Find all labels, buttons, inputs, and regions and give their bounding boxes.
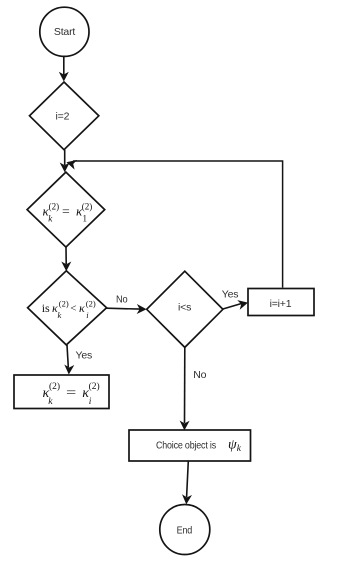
svg-text:k: k <box>58 310 62 320</box>
svg-text:End: End <box>177 525 193 537</box>
node Start (terminal circle) <box>40 7 89 56</box>
svg-text:ψ: ψ <box>228 437 237 452</box>
svg-text:=: = <box>66 385 76 400</box>
svg-text:is: is <box>42 301 50 315</box>
process i=i+1 <box>248 289 314 316</box>
decision D2 kappa_k = kappa_1 <box>27 172 105 247</box>
svg-text:(2): (2) <box>49 202 60 212</box>
svg-text:(2): (2) <box>59 299 69 309</box>
wire Start to D1 <box>59 57 69 82</box>
svg-text:i<s: i<s <box>178 302 191 314</box>
decision D3 is kappa_k < kappa_i <box>28 271 107 345</box>
wire D3 to D4 (No branch) <box>107 294 147 315</box>
svg-text:Yes: Yes <box>76 350 93 362</box>
wire loopback from i=i+1 to junction <box>66 160 282 288</box>
svg-text:Yes: Yes <box>222 288 239 300</box>
wire D3 to assignment box (Yes branch) <box>64 345 92 375</box>
svg-text:No: No <box>116 294 128 306</box>
svg-text:i: i <box>89 397 92 407</box>
svg-text:i=2: i=2 <box>56 110 70 122</box>
svg-text:κ: κ <box>79 301 85 315</box>
wire D2 to D3 <box>61 247 71 271</box>
svg-text:(2): (2) <box>89 381 100 392</box>
svg-text:<: < <box>70 303 76 315</box>
svg-text:Choice object is: Choice object is <box>156 439 216 451</box>
svg-text:(2): (2) <box>86 299 96 309</box>
wire D4 to choice box (No branch) <box>180 347 207 430</box>
decision D1 i=2 <box>30 82 99 150</box>
svg-text:(2): (2) <box>49 381 60 392</box>
svg-text:i=i+1: i=i+1 <box>270 298 292 310</box>
svg-text:=: = <box>62 204 70 218</box>
node End (terminal circle) <box>160 505 210 555</box>
process Choice object is psi_k <box>129 430 251 461</box>
svg-text:No: No <box>193 369 206 381</box>
svg-text:(2): (2) <box>82 202 93 212</box>
wire D4 to i=i+1 (Yes branch) <box>222 288 248 309</box>
decision D4 i&lt;s <box>147 271 223 347</box>
svg-text:1: 1 <box>83 213 88 223</box>
svg-text:Start: Start <box>54 26 75 38</box>
wire D1 to D2 (junction segment) <box>60 150 70 173</box>
process kappa_k = kappa_i assignment <box>14 375 109 409</box>
wire choice box to End <box>182 461 192 504</box>
